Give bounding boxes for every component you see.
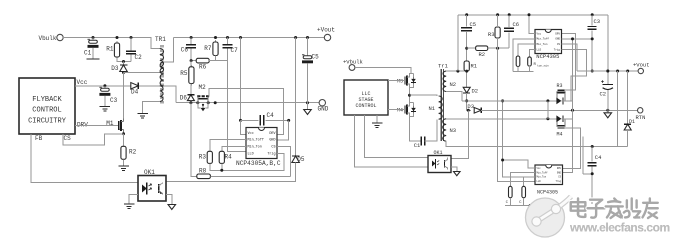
svg-text:M3: M3 <box>397 79 403 85</box>
svg-text:N1: N1 <box>429 105 436 112</box>
svg-text:C2: C2 <box>135 54 143 61</box>
svg-text:R4: R4 <box>225 154 233 161</box>
svg-text:CONTROL: CONTROL <box>32 107 61 115</box>
svg-text:D6: D6 <box>180 94 188 101</box>
svg-text:CS: CS <box>64 135 72 142</box>
svg-text:M4: M4 <box>397 108 403 114</box>
svg-text:GND: GND <box>557 171 562 174</box>
svg-text:D5: D5 <box>297 156 305 163</box>
svg-text:Min_Toff: Min_Toff <box>537 37 550 41</box>
svg-text:DRV: DRV <box>269 132 276 136</box>
svg-text:R2: R2 <box>479 51 486 58</box>
svg-text:C3: C3 <box>594 18 601 25</box>
svg-text:Trig: Trig <box>267 152 275 157</box>
svg-text:NCP4305: NCP4305 <box>537 190 558 196</box>
svg-text:DRV: DRV <box>555 32 560 35</box>
svg-text:C4: C4 <box>595 154 602 161</box>
svg-text:Min_Toff: Min_Toff <box>248 138 264 143</box>
svg-text:Min_Ton: Min_Ton <box>248 145 262 150</box>
svg-text:FB: FB <box>35 135 43 142</box>
svg-text:D3: D3 <box>111 65 119 72</box>
svg-text:R3: R3 <box>199 154 207 161</box>
svg-text:TR1: TR1 <box>155 36 166 43</box>
svg-text:M1: M1 <box>106 120 114 127</box>
svg-text:N3: N3 <box>450 127 457 134</box>
svg-text:D4: D4 <box>131 89 139 96</box>
svg-text:CS: CS <box>557 43 561 46</box>
svg-text:LLD: LLD <box>248 153 254 157</box>
svg-text:D1: D1 <box>629 119 635 125</box>
svg-text:Min_Toff: Min_Toff <box>537 171 549 174</box>
svg-text:NCP4305A,B,C: NCP4305A,B,C <box>236 160 281 167</box>
svg-text:Tr1: Tr1 <box>438 63 449 70</box>
svg-text:Min_Ton: Min_Ton <box>537 42 548 46</box>
svg-text:R1: R1 <box>471 63 478 70</box>
svg-text:R6: R6 <box>199 64 207 71</box>
svg-text:C4: C4 <box>267 112 275 119</box>
svg-text:OK1: OK1 <box>144 169 155 176</box>
svg-text:ton_min: ton_min <box>537 63 549 67</box>
svg-text:GND: GND <box>269 139 275 143</box>
svg-text:M4: M4 <box>557 132 563 138</box>
svg-text:R5: R5 <box>180 70 188 77</box>
svg-text:C7: C7 <box>231 47 239 54</box>
svg-text:C5: C5 <box>312 54 320 61</box>
svg-text:+Vout: +Vout <box>633 62 650 69</box>
svg-text:C2: C2 <box>600 91 607 98</box>
svg-text:CS: CS <box>271 146 275 150</box>
svg-text:D2: D2 <box>472 88 479 95</box>
svg-text:OK1: OK1 <box>434 150 443 156</box>
svg-text:N2: N2 <box>450 81 457 88</box>
svg-text:C6: C6 <box>181 47 189 54</box>
svg-text:FLYBACK: FLYBACK <box>32 96 62 104</box>
svg-text:Trig: Trig <box>554 47 561 51</box>
svg-text:NCP4305: NCP4305 <box>536 53 559 60</box>
svg-text:C3: C3 <box>110 97 118 104</box>
svg-text:LLD: LLD <box>537 180 542 183</box>
svg-text:Min_Ton: Min_Ton <box>537 176 547 179</box>
svg-text:LLD: LLD <box>537 48 542 51</box>
svg-text:RTN: RTN <box>636 114 646 121</box>
svg-text:R8: R8 <box>199 168 207 175</box>
svg-text:Vcc: Vcc <box>248 132 254 136</box>
svg-text:Vcc: Vcc <box>77 79 88 86</box>
svg-text:www.elecfans.com: www.elecfans.com <box>569 221 670 235</box>
svg-text:C1: C1 <box>84 50 92 57</box>
svg-text:GND: GND <box>318 106 329 113</box>
svg-text:R2: R2 <box>129 149 137 156</box>
svg-text:C1: C1 <box>414 142 421 149</box>
svg-text:R7: R7 <box>204 45 212 52</box>
svg-text:Vbulk: Vbulk <box>38 35 56 42</box>
svg-text:C6: C6 <box>513 21 520 28</box>
svg-text:M2: M2 <box>199 84 207 91</box>
svg-text:Trig: Trig <box>555 180 561 183</box>
svg-text:R3: R3 <box>557 83 563 89</box>
svg-text:D3: D3 <box>467 103 474 110</box>
svg-text:Vcc: Vcc <box>537 167 542 170</box>
svg-text:Vcc: Vcc <box>537 32 542 35</box>
svg-text:+Vbulk: +Vbulk <box>343 59 364 66</box>
svg-text:GND: GND <box>555 38 560 41</box>
svg-text:+Vout: +Vout <box>317 27 335 34</box>
svg-text:CIRCUITRY: CIRCUITRY <box>28 118 67 126</box>
svg-text:C5: C5 <box>470 21 477 28</box>
svg-text:R1: R1 <box>106 46 114 53</box>
svg-text:R3: R3 <box>488 31 495 38</box>
svg-text:DRV: DRV <box>557 167 562 170</box>
svg-text:CONTROL: CONTROL <box>355 103 376 109</box>
